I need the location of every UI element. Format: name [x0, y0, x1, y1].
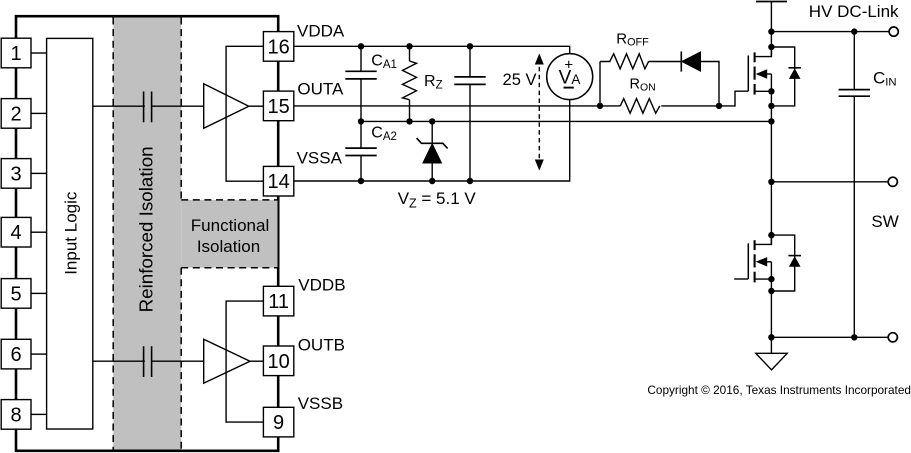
- wire SW rail: [771, 181, 888, 183]
- svg-text:14: 14: [267, 171, 289, 193]
- junction dot SW node: [768, 179, 774, 185]
- resistor RON: [620, 97, 661, 114]
- pin 4: [1, 217, 31, 247]
- svg-text:9: 9: [273, 412, 284, 434]
- wire VDDA pin16 to rail A: [226, 46, 263, 181]
- low-side body diode: [771, 235, 801, 291]
- junction dot VDDA/RZ: [406, 43, 412, 49]
- wire pin2 to input logic: [31, 112, 47, 114]
- wire buffer A output to pin15: [249, 105, 264, 107]
- high-side body diode: [771, 47, 801, 106]
- svg-text:16: 16: [267, 36, 289, 58]
- high-side MOSFET Q1: [748, 47, 771, 95]
- capacitor CA1: [345, 46, 376, 121]
- pin 11: [263, 286, 293, 316]
- junction dot ground node: [768, 334, 774, 340]
- pin 9: [263, 407, 293, 437]
- junction dot low drain: [768, 232, 774, 238]
- pin 3: [1, 159, 31, 189]
- wire pin4 to input logic: [31, 231, 47, 233]
- wire half-bridge vertical (mid segment): [770, 74, 772, 244]
- capacitor CA2: [345, 121, 376, 181]
- reinforced isolation left dashed border: [112, 18, 114, 450]
- DC bus top stub bar: [756, 2, 787, 57]
- functional isolation bottom dashed border: [181, 267, 277, 269]
- junction dot VDDA/CA1: [358, 43, 364, 49]
- isolation capacitor channel B: [144, 346, 152, 377]
- svg-text:HV DC-Link: HV DC-Link: [809, 2, 899, 21]
- svg-text:11: 11: [268, 291, 289, 313]
- wire ground rail: [771, 336, 888, 338]
- svg-text:10: 10: [267, 351, 289, 373]
- junction dot low diode bottom: [768, 288, 774, 294]
- junction dot gate node: [716, 103, 722, 109]
- junction dot midrail / source: [768, 118, 774, 124]
- ground symbol: [756, 353, 787, 370]
- isolation capacitor channel A: [144, 92, 152, 123]
- junction dot VDDA/bypass cap: [467, 43, 473, 49]
- wire channel B signal: [93, 360, 204, 362]
- reinforced isolation right dashed border (lower segment): [180, 268, 182, 450]
- svg-text:2: 2: [11, 103, 22, 125]
- svg-text:VDDB: VDDB: [298, 276, 345, 295]
- functional isolation shaded box: [181, 200, 277, 268]
- reinforced isolation shaded band: [113, 18, 181, 450]
- pin 2: [1, 99, 31, 129]
- svg-text:25 V: 25 V: [503, 71, 537, 89]
- junction dot OUTA/ROFF branch: [597, 103, 603, 109]
- terminal SW: [888, 177, 897, 186]
- wire VDDA rail: [294, 46, 570, 53]
- junction dot VSSA/zener: [429, 178, 435, 184]
- junction dot diode bottom: [768, 103, 774, 109]
- svg-text:1: 1: [11, 43, 22, 65]
- junction dot HV rail / bus: [768, 28, 774, 34]
- svg-text:Input Logic: Input Logic: [61, 191, 80, 275]
- wire pin1 to input logic: [31, 52, 47, 54]
- zener diode DZ: [417, 121, 448, 181]
- pin 1: [1, 38, 31, 68]
- wire buffer B output to pin10: [250, 360, 263, 362]
- functional isolation top dashed border: [181, 199, 277, 201]
- svg-text:5: 5: [11, 283, 22, 305]
- 25 V dashed measurement arrow: [535, 54, 544, 171]
- pin 16: [263, 32, 293, 62]
- svg-text:4: 4: [11, 222, 22, 244]
- voltage source VA: [547, 54, 593, 100]
- capacitor CIN: [839, 32, 870, 338]
- pin 5: [1, 279, 31, 309]
- junction dot midrail/zener: [429, 118, 435, 124]
- wire pin3 to input logic: [31, 172, 47, 174]
- wire mid rail (kelvin source reference): [361, 120, 771, 122]
- junction dot source: [768, 88, 774, 94]
- wire ROFF branch up: [599, 62, 601, 106]
- junction dot midrail/RZ: [406, 118, 412, 124]
- junction dot drain / diode top: [768, 44, 774, 50]
- wire half-bridge vertical (low segment): [770, 262, 772, 353]
- wire ROFF/diode line: [600, 62, 719, 106]
- wire HV DC-Link rail: [771, 31, 889, 33]
- svg-text:Isolation: Isolation: [197, 237, 260, 256]
- svg-text:VSSB: VSSB: [298, 394, 343, 413]
- wire VDDB pin11 to rail B: [226, 301, 263, 422]
- bypass capacitor (unlabeled): [454, 46, 485, 181]
- junction dot VSSA/bypass cap: [467, 178, 473, 184]
- buffer amplifier channel B: [204, 339, 250, 383]
- pin 6: [1, 339, 31, 369]
- pin 14: [263, 166, 293, 196]
- svg-text:VSSA: VSSA: [297, 149, 343, 168]
- wire channel A signal (logic to iso cap to buffer): [93, 105, 204, 107]
- svg-text:6: 6: [11, 344, 22, 366]
- pin 8: [1, 400, 31, 430]
- svg-text:SW: SW: [871, 212, 898, 231]
- svg-text:Functional: Functional: [191, 216, 269, 235]
- low-side MOSFET Q2: [734, 235, 771, 282]
- terminal bottom: [888, 333, 897, 342]
- resistor ROFF: [610, 53, 649, 70]
- svg-text:Copyright © 2016, Texas Instru: Copyright © 2016, Texas Instruments Inco…: [647, 383, 911, 397]
- buffer amplifier channel A: [204, 84, 249, 129]
- svg-text:VDDA: VDDA: [297, 21, 345, 40]
- pin 15: [263, 91, 293, 121]
- svg-text:OUTA: OUTA: [297, 80, 344, 99]
- wire OUTA line to gate network: [294, 91, 749, 106]
- junction dot CIN top: [851, 28, 857, 34]
- svg-text:15: 15: [267, 96, 289, 118]
- input logic block: [47, 38, 93, 429]
- svg-text:3: 3: [11, 163, 22, 185]
- junction dot low source: [768, 276, 774, 282]
- svg-text:8: 8: [11, 404, 22, 426]
- svg-text:Reinforced Isolation: Reinforced Isolation: [135, 146, 156, 312]
- junction dot VSSA/CA2: [358, 178, 364, 184]
- wire pin6 to input logic: [31, 353, 47, 355]
- wire pin8 to input logic: [31, 413, 47, 415]
- terminal HV DC-Link: [889, 27, 898, 36]
- reinforced isolation right dashed border (upper segment): [180, 18, 182, 200]
- junction dot CIN bottom: [851, 334, 857, 340]
- junction dot midrail/CA1: [358, 118, 364, 124]
- resistor RZ: [403, 46, 417, 121]
- svg-text:OUTB: OUTB: [298, 336, 345, 355]
- turn-off diode: [681, 52, 700, 72]
- wire VSSA rail: [294, 100, 570, 181]
- IC outer boundary U1: [16, 16, 278, 451]
- wire pin5 to input logic: [31, 292, 47, 294]
- pin 10: [263, 346, 293, 376]
